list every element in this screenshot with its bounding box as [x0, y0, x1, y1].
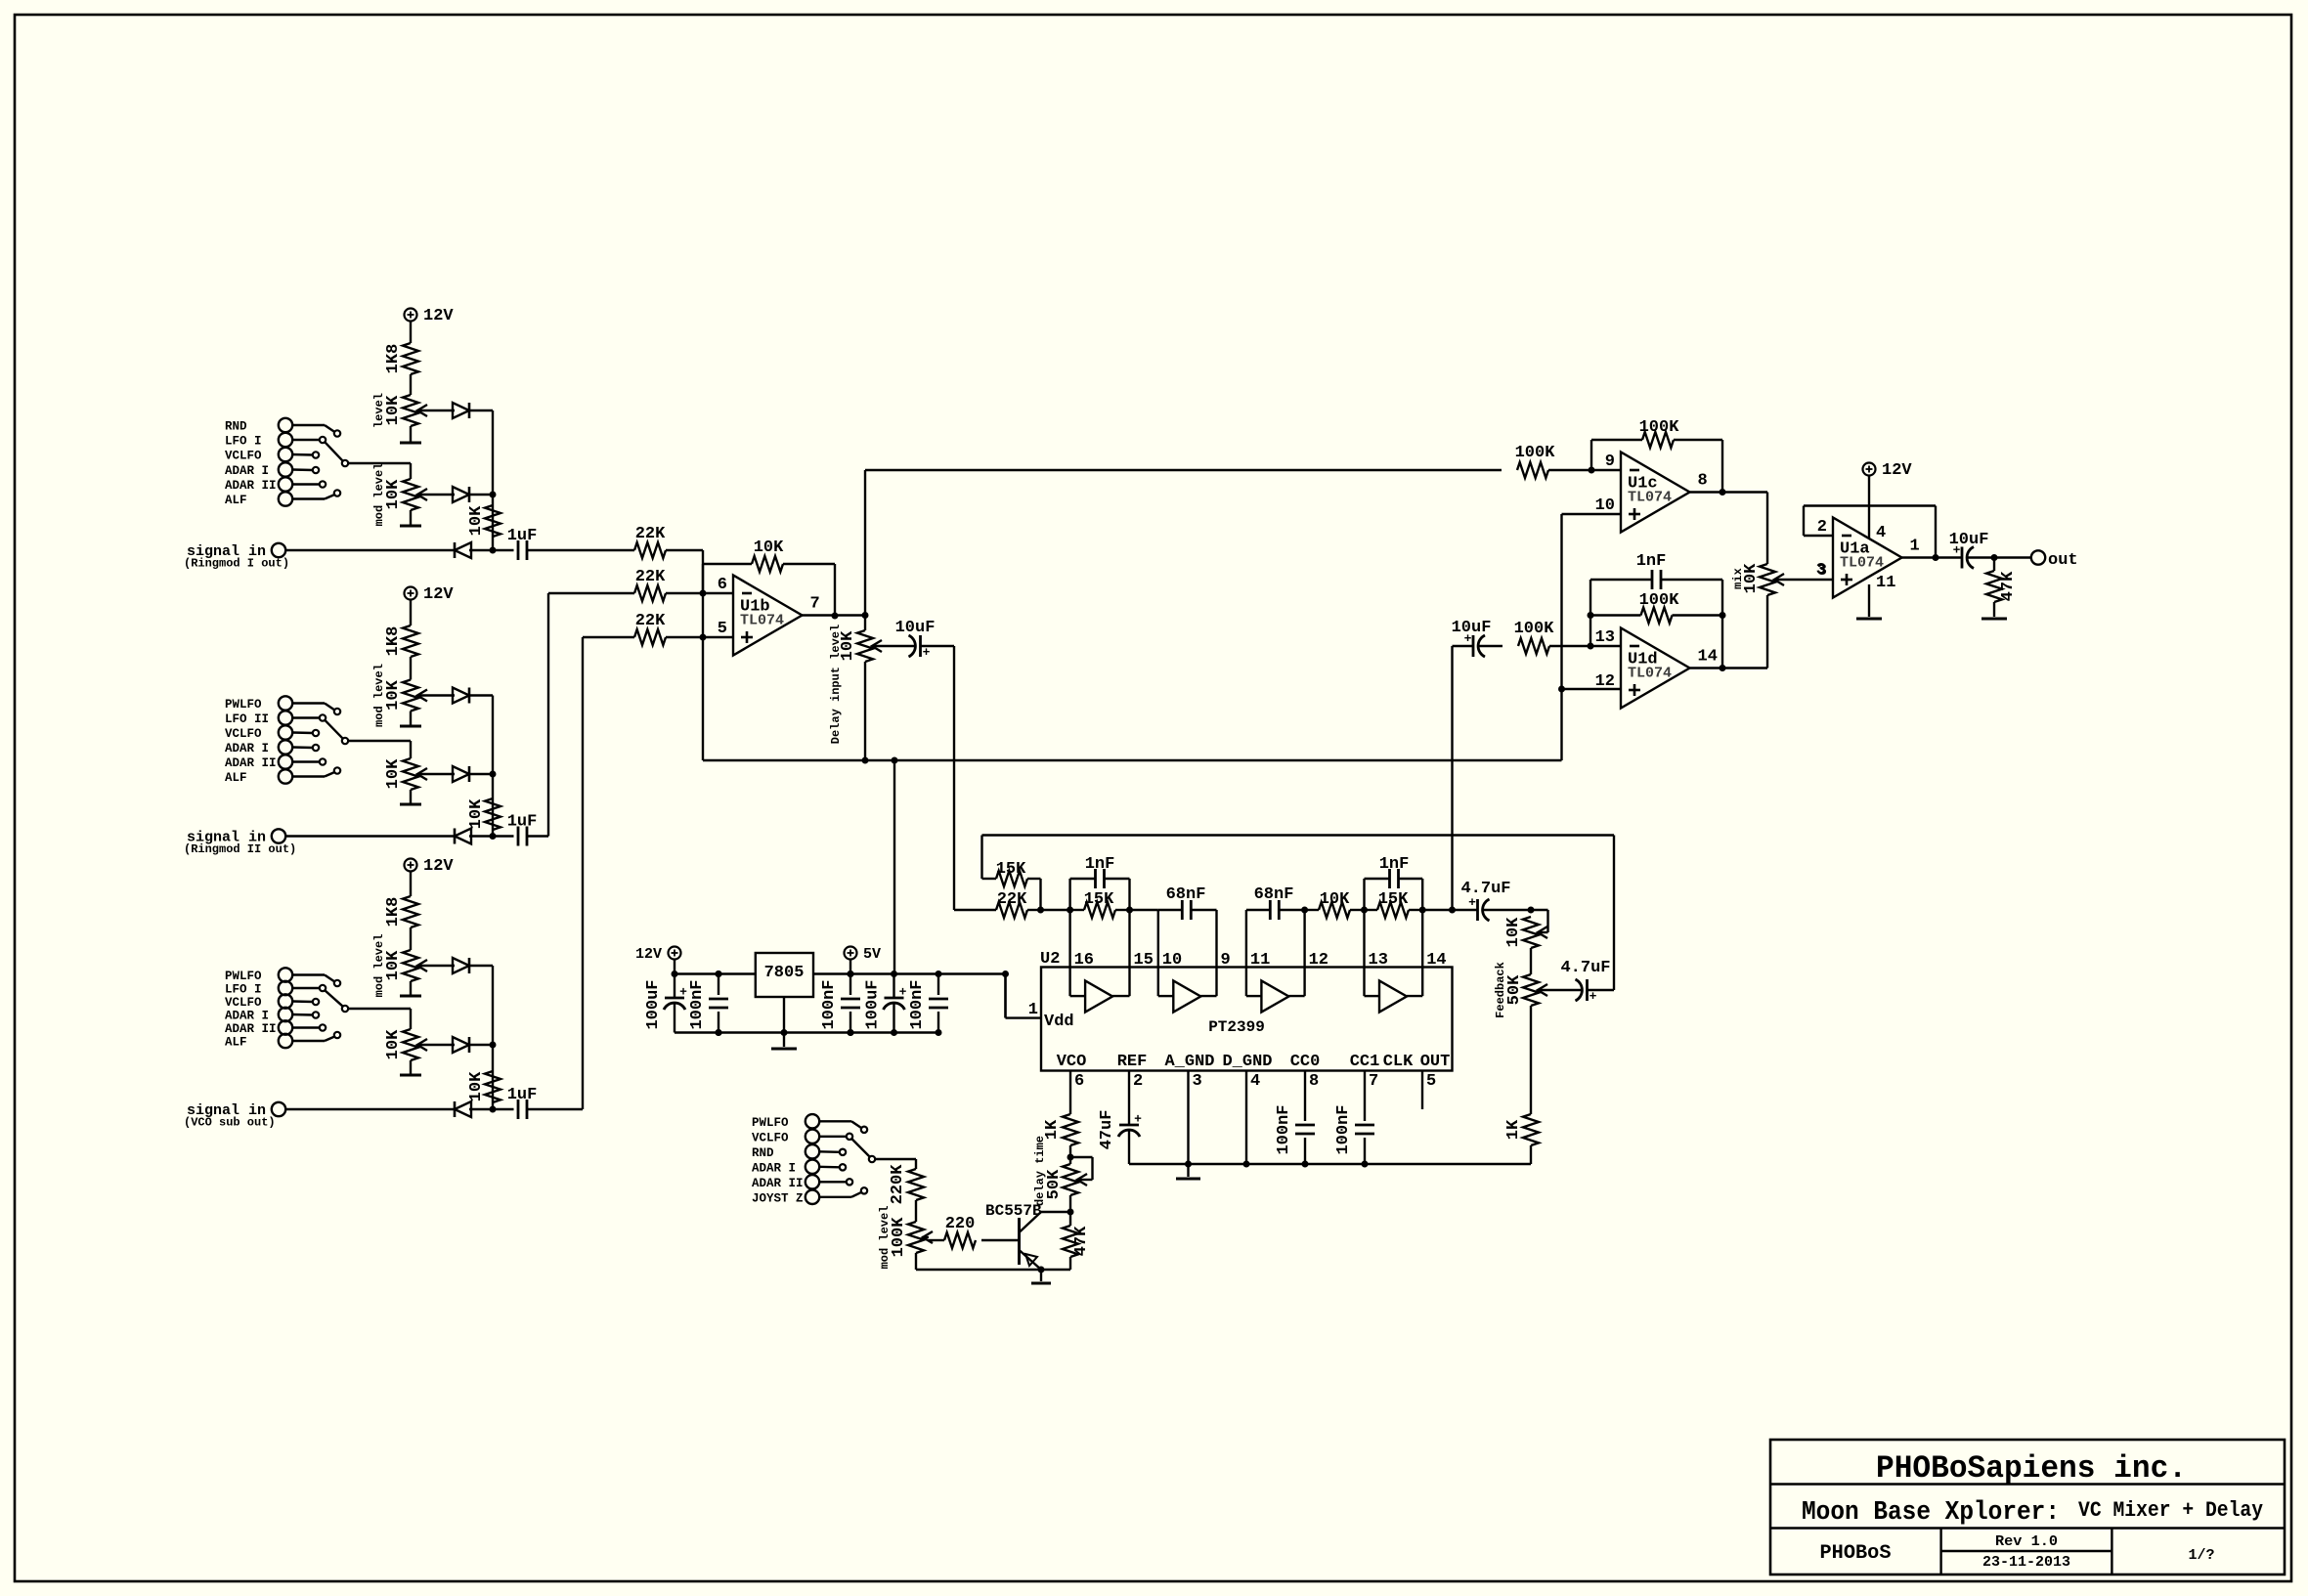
- svg-text:7: 7: [1369, 1072, 1378, 1091]
- svg-text:16: 16: [1074, 951, 1094, 970]
- svg-text:(VCO sub out): (VCO sub out): [184, 1116, 276, 1130]
- svg-text:ADAR I: ADAR I: [752, 1161, 796, 1175]
- svg-text:PT2399: PT2399: [1208, 1018, 1265, 1036]
- svg-text:100nF: 100nF: [1275, 1104, 1293, 1154]
- svg-text:22K: 22K: [997, 890, 1027, 909]
- svg-text:JOYST Z: JOYST Z: [752, 1191, 804, 1205]
- svg-text:1nF: 1nF: [1379, 855, 1410, 874]
- svg-text:47K: 47K: [1999, 571, 2018, 601]
- svg-text:12: 12: [1595, 672, 1615, 691]
- svg-text:1K8: 1K8: [384, 897, 403, 927]
- svg-text:220K: 220K: [889, 1164, 907, 1205]
- svg-text:14: 14: [1698, 648, 1718, 667]
- svg-text:9: 9: [1605, 453, 1615, 471]
- svg-text:1nF: 1nF: [1636, 552, 1667, 571]
- svg-text:11: 11: [1876, 574, 1895, 592]
- svg-text:VCLFO: VCLFO: [752, 1131, 789, 1144]
- svg-text:1K8: 1K8: [384, 344, 403, 374]
- svg-text:15K: 15K: [1378, 890, 1409, 909]
- svg-text:10K: 10K: [467, 505, 486, 536]
- svg-text:+: +: [1134, 1112, 1142, 1127]
- svg-text:100K: 100K: [890, 1217, 908, 1258]
- svg-text:22K: 22K: [635, 612, 666, 630]
- svg-text:VC Mixer + Delay: VC Mixer + Delay: [2078, 1498, 2263, 1523]
- svg-text:PWLFO: PWLFO: [225, 970, 262, 983]
- svg-text:12V: 12V: [423, 857, 454, 876]
- svg-text:4: 4: [1250, 1072, 1260, 1091]
- svg-text:11: 11: [1250, 951, 1270, 970]
- svg-text:RND: RND: [225, 420, 247, 434]
- svg-text:Vdd: Vdd: [1044, 1013, 1074, 1031]
- svg-text:10K: 10K: [1320, 890, 1350, 909]
- svg-text:10K: 10K: [1504, 917, 1523, 947]
- svg-text:100K: 100K: [1639, 418, 1680, 437]
- svg-text:1K8: 1K8: [384, 626, 403, 657]
- svg-text:TL074: TL074: [1628, 666, 1672, 682]
- svg-text:PHOBoS: PHOBoS: [1820, 1542, 1892, 1565]
- svg-text:ADAR II: ADAR II: [752, 1177, 804, 1190]
- svg-text:10K: 10K: [467, 798, 486, 829]
- svg-text:68nF: 68nF: [1166, 885, 1206, 904]
- svg-text:PHOBoSapiens inc.: PHOBoSapiens inc.: [1876, 1450, 2187, 1487]
- svg-text:47uF: 47uF: [1098, 1110, 1116, 1150]
- svg-text:4: 4: [1876, 524, 1886, 542]
- svg-text:23-11-2013: 23-11-2013: [1982, 1554, 2070, 1571]
- svg-text:BC557B: BC557B: [985, 1202, 1042, 1220]
- svg-text:CC1: CC1: [1350, 1053, 1380, 1071]
- svg-text:10K: 10K: [384, 758, 403, 789]
- svg-text:100nF: 100nF: [820, 979, 839, 1029]
- svg-text:PWLFO: PWLFO: [752, 1116, 789, 1130]
- svg-text:100uF: 100uF: [864, 979, 883, 1029]
- svg-text:CC0: CC0: [1290, 1053, 1321, 1071]
- svg-text:(Ringmod I out): (Ringmod I out): [184, 557, 289, 571]
- svg-text:ALF: ALF: [225, 1036, 247, 1050]
- svg-text:out: out: [2048, 551, 2078, 570]
- svg-text:Moon Base Xplorer:: Moon Base Xplorer:: [1802, 1498, 2060, 1528]
- svg-text:LFO I: LFO I: [225, 983, 262, 997]
- svg-text:5: 5: [1426, 1072, 1436, 1091]
- svg-text:VCO: VCO: [1057, 1053, 1087, 1071]
- svg-text:A_GND: A_GND: [1164, 1053, 1214, 1071]
- svg-text:+: +: [923, 645, 931, 660]
- svg-text:TL074: TL074: [1628, 490, 1672, 506]
- svg-text:12: 12: [1309, 951, 1328, 970]
- svg-text:22K: 22K: [635, 525, 666, 543]
- svg-text:TL074: TL074: [740, 613, 784, 629]
- svg-text:TL074: TL074: [1840, 555, 1884, 572]
- svg-text:10K: 10K: [384, 679, 403, 710]
- svg-text:220: 220: [945, 1215, 976, 1233]
- svg-text:+: +: [679, 985, 687, 1000]
- svg-text:10uF: 10uF: [1452, 619, 1492, 637]
- svg-text:1nF: 1nF: [1085, 855, 1115, 874]
- svg-text:10K: 10K: [839, 630, 857, 661]
- svg-text:+: +: [1589, 989, 1597, 1004]
- svg-text:1uF: 1uF: [507, 527, 538, 545]
- svg-text:2: 2: [1817, 518, 1827, 537]
- svg-text:ADAR II: ADAR II: [225, 1022, 277, 1036]
- svg-text:15: 15: [1134, 951, 1154, 970]
- svg-text:100nF: 100nF: [1334, 1104, 1353, 1154]
- svg-text:10uF: 10uF: [895, 619, 936, 637]
- svg-text:1/?: 1/?: [2188, 1547, 2214, 1564]
- svg-text:REF: REF: [1117, 1053, 1148, 1071]
- svg-text:1: 1: [1028, 1001, 1038, 1019]
- svg-text:PWLFO: PWLFO: [225, 698, 262, 712]
- svg-text:OUT: OUT: [1420, 1053, 1451, 1071]
- svg-text:ADAR II: ADAR II: [225, 479, 277, 493]
- svg-text:7805: 7805: [764, 964, 805, 982]
- svg-text:10uF: 10uF: [1949, 531, 1989, 549]
- svg-text:47K: 47K: [1072, 1226, 1091, 1256]
- svg-text:+: +: [899, 985, 907, 1000]
- svg-text:10K: 10K: [754, 539, 784, 557]
- svg-text:8: 8: [1309, 1072, 1319, 1091]
- svg-text:4.7uF: 4.7uF: [1560, 959, 1610, 977]
- svg-text:100uF: 100uF: [644, 979, 663, 1029]
- svg-text:RND: RND: [752, 1146, 774, 1160]
- svg-text:9: 9: [1221, 951, 1231, 970]
- svg-text:ADAR I: ADAR I: [225, 1010, 269, 1023]
- svg-text:10K: 10K: [384, 395, 403, 425]
- svg-text:Rev 1.0: Rev 1.0: [1995, 1533, 2058, 1550]
- svg-text:7: 7: [810, 595, 820, 614]
- svg-text:100K: 100K: [1514, 620, 1555, 638]
- svg-text:12V: 12V: [635, 946, 662, 963]
- svg-text:6: 6: [1074, 1072, 1084, 1091]
- svg-text:3: 3: [1193, 1072, 1202, 1091]
- svg-text:ADAR II: ADAR II: [225, 756, 277, 770]
- svg-text:1uF: 1uF: [507, 1086, 538, 1104]
- svg-text:4.7uF: 4.7uF: [1460, 880, 1510, 898]
- svg-text:D_GND: D_GND: [1222, 1053, 1272, 1071]
- svg-text:1uF: 1uF: [507, 813, 538, 832]
- svg-text:12V: 12V: [423, 585, 454, 604]
- svg-text:VCLFO: VCLFO: [225, 727, 262, 741]
- svg-text:10K: 10K: [384, 1029, 403, 1059]
- svg-text:3: 3: [1817, 562, 1827, 581]
- svg-text:14: 14: [1426, 951, 1446, 970]
- svg-text:12V: 12V: [423, 307, 454, 325]
- svg-text:1: 1: [1910, 538, 1920, 556]
- svg-text:100K: 100K: [1515, 444, 1556, 462]
- svg-text:ADAR I: ADAR I: [225, 464, 269, 478]
- svg-text:LFO I: LFO I: [225, 435, 262, 449]
- svg-text:10: 10: [1595, 496, 1615, 515]
- svg-text:15K: 15K: [996, 860, 1026, 879]
- svg-text:ALF: ALF: [225, 494, 247, 507]
- svg-text:10K: 10K: [467, 1071, 486, 1101]
- svg-text:50K: 50K: [1045, 1169, 1064, 1199]
- svg-text:10K: 10K: [384, 479, 403, 509]
- svg-text:15K: 15K: [1084, 890, 1114, 909]
- svg-text:10: 10: [1162, 951, 1182, 970]
- svg-text:1K: 1K: [1504, 1119, 1523, 1140]
- svg-text:5V: 5V: [863, 946, 881, 963]
- svg-text:ADAR I: ADAR I: [225, 742, 269, 755]
- svg-text:10K: 10K: [1742, 563, 1761, 593]
- svg-text:100K: 100K: [1639, 591, 1680, 610]
- svg-text:(Ringmod II out): (Ringmod II out): [184, 842, 296, 856]
- svg-text:5: 5: [718, 620, 727, 638]
- svg-text:6: 6: [718, 576, 727, 594]
- svg-text:8: 8: [1698, 472, 1708, 491]
- svg-text:100nF: 100nF: [908, 979, 927, 1029]
- svg-text:ALF: ALF: [225, 771, 247, 785]
- svg-text:VCLFO: VCLFO: [225, 996, 262, 1010]
- svg-text:50K: 50K: [1505, 974, 1524, 1005]
- svg-text:13: 13: [1595, 628, 1615, 647]
- svg-text:68nF: 68nF: [1254, 885, 1294, 904]
- svg-text:100nF: 100nF: [688, 979, 707, 1029]
- svg-text:13: 13: [1369, 951, 1388, 970]
- svg-text:LFO II: LFO II: [225, 712, 269, 726]
- svg-text:12V: 12V: [1882, 461, 1912, 480]
- svg-text:22K: 22K: [635, 568, 666, 586]
- svg-text:10K: 10K: [384, 950, 403, 980]
- svg-text:2: 2: [1133, 1072, 1143, 1091]
- svg-text:U2: U2: [1040, 950, 1060, 969]
- svg-text:CLK: CLK: [1383, 1053, 1414, 1071]
- svg-text:VCLFO: VCLFO: [225, 450, 262, 463]
